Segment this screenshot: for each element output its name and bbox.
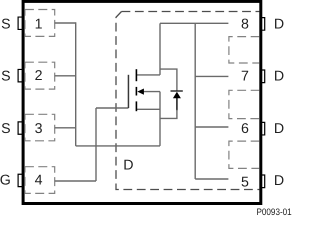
svg-text:D: D [274, 69, 284, 85]
wire pin2 to source rail [55, 75, 76, 77]
body diode D1 anode triangle [173, 92, 181, 99]
body diode D1 cathode bar [171, 90, 183, 92]
svg-text:G: G [0, 173, 11, 189]
source rail vertical (node S) [75, 22, 77, 146]
pin 6 lead stub [261, 122, 265, 135]
pin 7 lead stub [261, 70, 265, 83]
svg-text:D: D [274, 17, 284, 33]
source vertical wire [159, 92, 161, 146]
body lead wire [144, 91, 161, 93]
svg-text:3: 3 [35, 121, 43, 137]
diode lower lead dark segment [176, 97, 178, 110]
package outline (8-pin body) [23, 1, 261, 203]
source rail bottom horizontal [76, 145, 160, 147]
pin 5 lead stub [261, 175, 265, 188]
pin 1 lead stub [18, 17, 23, 29]
pin 3 lead stub [18, 122, 23, 134]
svg-text:S: S [1, 121, 10, 137]
diode bottom branch wire [160, 110, 177, 119]
wire pin6 [195, 126, 228, 128]
wire pin1 to source rail [55, 22, 76, 24]
wire pin5 [195, 178, 228, 180]
transistor Q1 drain channel bar [135, 69, 137, 81]
svg-text:D: D [274, 173, 284, 189]
wire pin3 to source rail [55, 127, 76, 129]
drain vertical wire from pin8 rail [159, 23, 161, 75]
transistor Q1 body channel bar [135, 87, 137, 96]
pin 2 pad dashed box [25, 62, 55, 89]
svg-text:D: D [274, 121, 284, 137]
pin 2 lead stub [18, 69, 23, 81]
transistor Q1 source channel bar [135, 101, 137, 111]
svg-text:6: 6 [241, 121, 249, 137]
drain rail vertical (node D) [194, 23, 196, 179]
wire pin4 (gate) horizontal [55, 180, 96, 182]
svg-text:1: 1 [35, 17, 43, 33]
svg-text:S: S [1, 17, 10, 33]
gate lead wire [96, 107, 128, 109]
svg-text:8: 8 [241, 17, 249, 33]
pin 1 pad dashed box [25, 10, 55, 37]
pin 3 pad dashed box [25, 114, 55, 141]
wire pin8 rail horizontal [160, 22, 228, 24]
drain pad notch between pin 8 and pin 7 [229, 37, 260, 63]
svg-text:P0093-01: P0093-01 [257, 206, 292, 217]
transistor Q1 body arrow [137, 89, 144, 95]
svg-text:2: 2 [35, 68, 43, 84]
pin 8 lead stub [261, 18, 265, 31]
svg-text:5: 5 [241, 174, 249, 190]
svg-text:S: S [1, 68, 10, 84]
drain pad notch between pin 7 and pin 6 [229, 90, 260, 118]
svg-text:4: 4 [35, 173, 43, 189]
thermal pad / drain pad dashed outline (node D) [122, 11, 260, 13]
drain horizontal to channel [136, 74, 160, 76]
pin 4 pad dashed box [25, 167, 55, 194]
svg-text:D: D [123, 157, 133, 173]
diode top branch wire [160, 69, 177, 91]
pin 4 lead stub [18, 174, 23, 186]
svg-text:7: 7 [241, 69, 249, 85]
drain pad notch between pin 6 and pin 5 [229, 141, 260, 168]
transistor Q1 gate bar [127, 75, 129, 108]
wire pin7 [195, 75, 228, 77]
gate riser wire [95, 108, 97, 181]
source horizontal from channel [136, 108, 160, 110]
